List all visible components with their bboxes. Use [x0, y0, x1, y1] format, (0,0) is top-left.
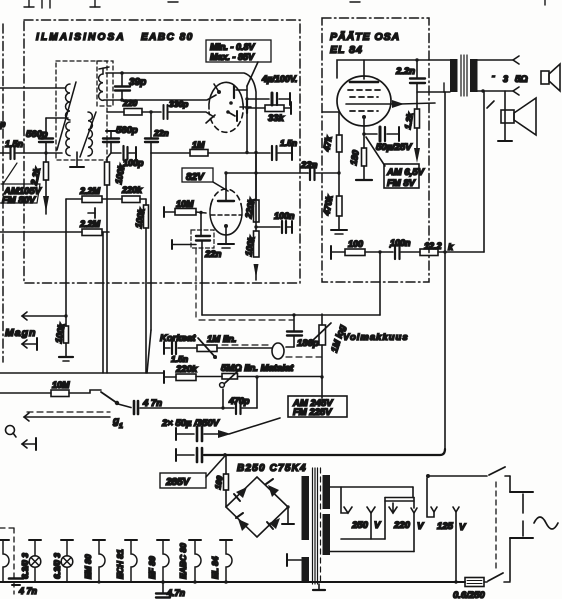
svg-text:47k: 47k: [321, 134, 334, 152]
svg-text:1M lin.: 1M lin.: [207, 334, 237, 345]
svg-text:1.5n: 1.5n: [280, 138, 297, 148]
svg-text:470p: 470p: [228, 396, 250, 406]
svg-text:100n: 100n: [274, 211, 295, 221]
svg-text:0.6/250: 0.6/250: [453, 590, 485, 599]
svg-text:330p: 330p: [169, 99, 188, 109]
svg-text:220k: 220k: [121, 185, 143, 195]
svg-text:EM 80: EM 80: [83, 554, 93, 579]
svg-text:5MΩ lin. Matalat: 5MΩ lin. Matalat: [221, 363, 294, 374]
svg-text:100k: 100k: [133, 207, 146, 229]
svg-text:AM 6,5V: AM 6,5V: [386, 167, 425, 178]
svg-text:2.2n: 2.2n: [395, 66, 415, 77]
svg-text:Max. - 85V: Max. - 85V: [210, 52, 255, 62]
svg-text:ILMAISINOSA: ILMAISINOSA: [36, 32, 126, 43]
svg-text:100: 100: [348, 239, 363, 249]
svg-text:6.3/0 3: 6.3/0 3: [20, 553, 30, 579]
svg-text:Min. - 0.8V: Min. - 0.8V: [210, 42, 256, 52]
svg-text:-: -: [492, 71, 495, 81]
svg-text:1M: 1M: [192, 140, 205, 150]
svg-text:125: 125: [437, 521, 454, 532]
svg-text:6.3/0 3: 6.3/0 3: [52, 553, 62, 579]
svg-text:180p: 180p: [297, 338, 319, 349]
svg-text:3: 3: [503, 74, 508, 84]
svg-text:22n: 22n: [153, 128, 169, 138]
svg-text:Voimakkuus: Voimakkuus: [343, 332, 409, 343]
svg-text:FM 8V: FM 8V: [387, 178, 416, 189]
svg-text:39p: 39p: [129, 77, 146, 88]
svg-text:470k: 470k: [321, 194, 335, 217]
svg-text:100k: 100k: [113, 163, 126, 185]
svg-text:180: 180: [348, 149, 360, 166]
svg-text:EABC 80: EABC 80: [178, 543, 188, 579]
svg-text:4 7n: 4 7n: [18, 586, 38, 596]
svg-text:33k: 33k: [268, 113, 285, 124]
svg-text:4µ/100V.: 4µ/100V.: [261, 74, 297, 84]
svg-text:560p: 560p: [116, 125, 138, 136]
svg-text:Magn: Magn: [5, 327, 36, 339]
svg-text:k: k: [448, 242, 454, 252]
svg-text:Korkeat: Korkeat: [160, 333, 196, 344]
svg-text:B250 C75K4: B250 C75K4: [237, 463, 307, 474]
svg-text:10M: 10M: [176, 199, 194, 209]
svg-text:FM 225V: FM 225V: [293, 407, 332, 418]
svg-text:2× 50µ /350V: 2× 50µ /350V: [161, 418, 220, 429]
svg-text:82V: 82V: [186, 172, 205, 183]
svg-text:V: V: [374, 520, 381, 531]
svg-text:V: V: [459, 522, 466, 533]
svg-text:2.2M: 2.2M: [79, 186, 101, 196]
svg-text:5Ω: 5Ω: [515, 74, 528, 85]
svg-text:100n: 100n: [390, 238, 411, 248]
svg-text:220k: 220k: [243, 197, 257, 220]
svg-text:1.2k: 1.2k: [402, 111, 415, 130]
svg-text:EABC 80: EABC 80: [141, 32, 194, 43]
svg-text:V: V: [417, 521, 424, 532]
svg-text:100k: 100k: [53, 322, 66, 344]
svg-text:PÄÄTE OSA: PÄÄTE OSA: [330, 30, 400, 43]
svg-text:1.5n: 1.5n: [171, 354, 188, 364]
svg-text:EL 84: EL 84: [210, 556, 220, 579]
svg-text:22n: 22n: [204, 249, 222, 260]
svg-text:50µ/25V: 50µ/25V: [376, 142, 412, 153]
svg-text:p: p: [0, 119, 6, 129]
svg-text:4.7n: 4.7n: [166, 588, 186, 598]
svg-text:EL 84: EL 84: [330, 44, 363, 56]
svg-text:220: 220: [393, 520, 411, 531]
svg-text:ECH 81: ECH 81: [115, 549, 125, 579]
svg-text:EF 89: EF 89: [147, 556, 157, 579]
svg-text:10M: 10M: [52, 380, 70, 390]
svg-text:220: 220: [122, 98, 137, 108]
svg-text:FM 80V: FM 80V: [2, 195, 36, 206]
svg-text:285V: 285V: [165, 477, 191, 488]
svg-text:22n: 22n: [300, 160, 318, 171]
svg-text:100k: 100k: [243, 235, 256, 257]
svg-text:250: 250: [351, 520, 369, 531]
svg-text:1: 1: [119, 423, 123, 430]
svg-text:2.2M: 2.2M: [79, 219, 101, 229]
